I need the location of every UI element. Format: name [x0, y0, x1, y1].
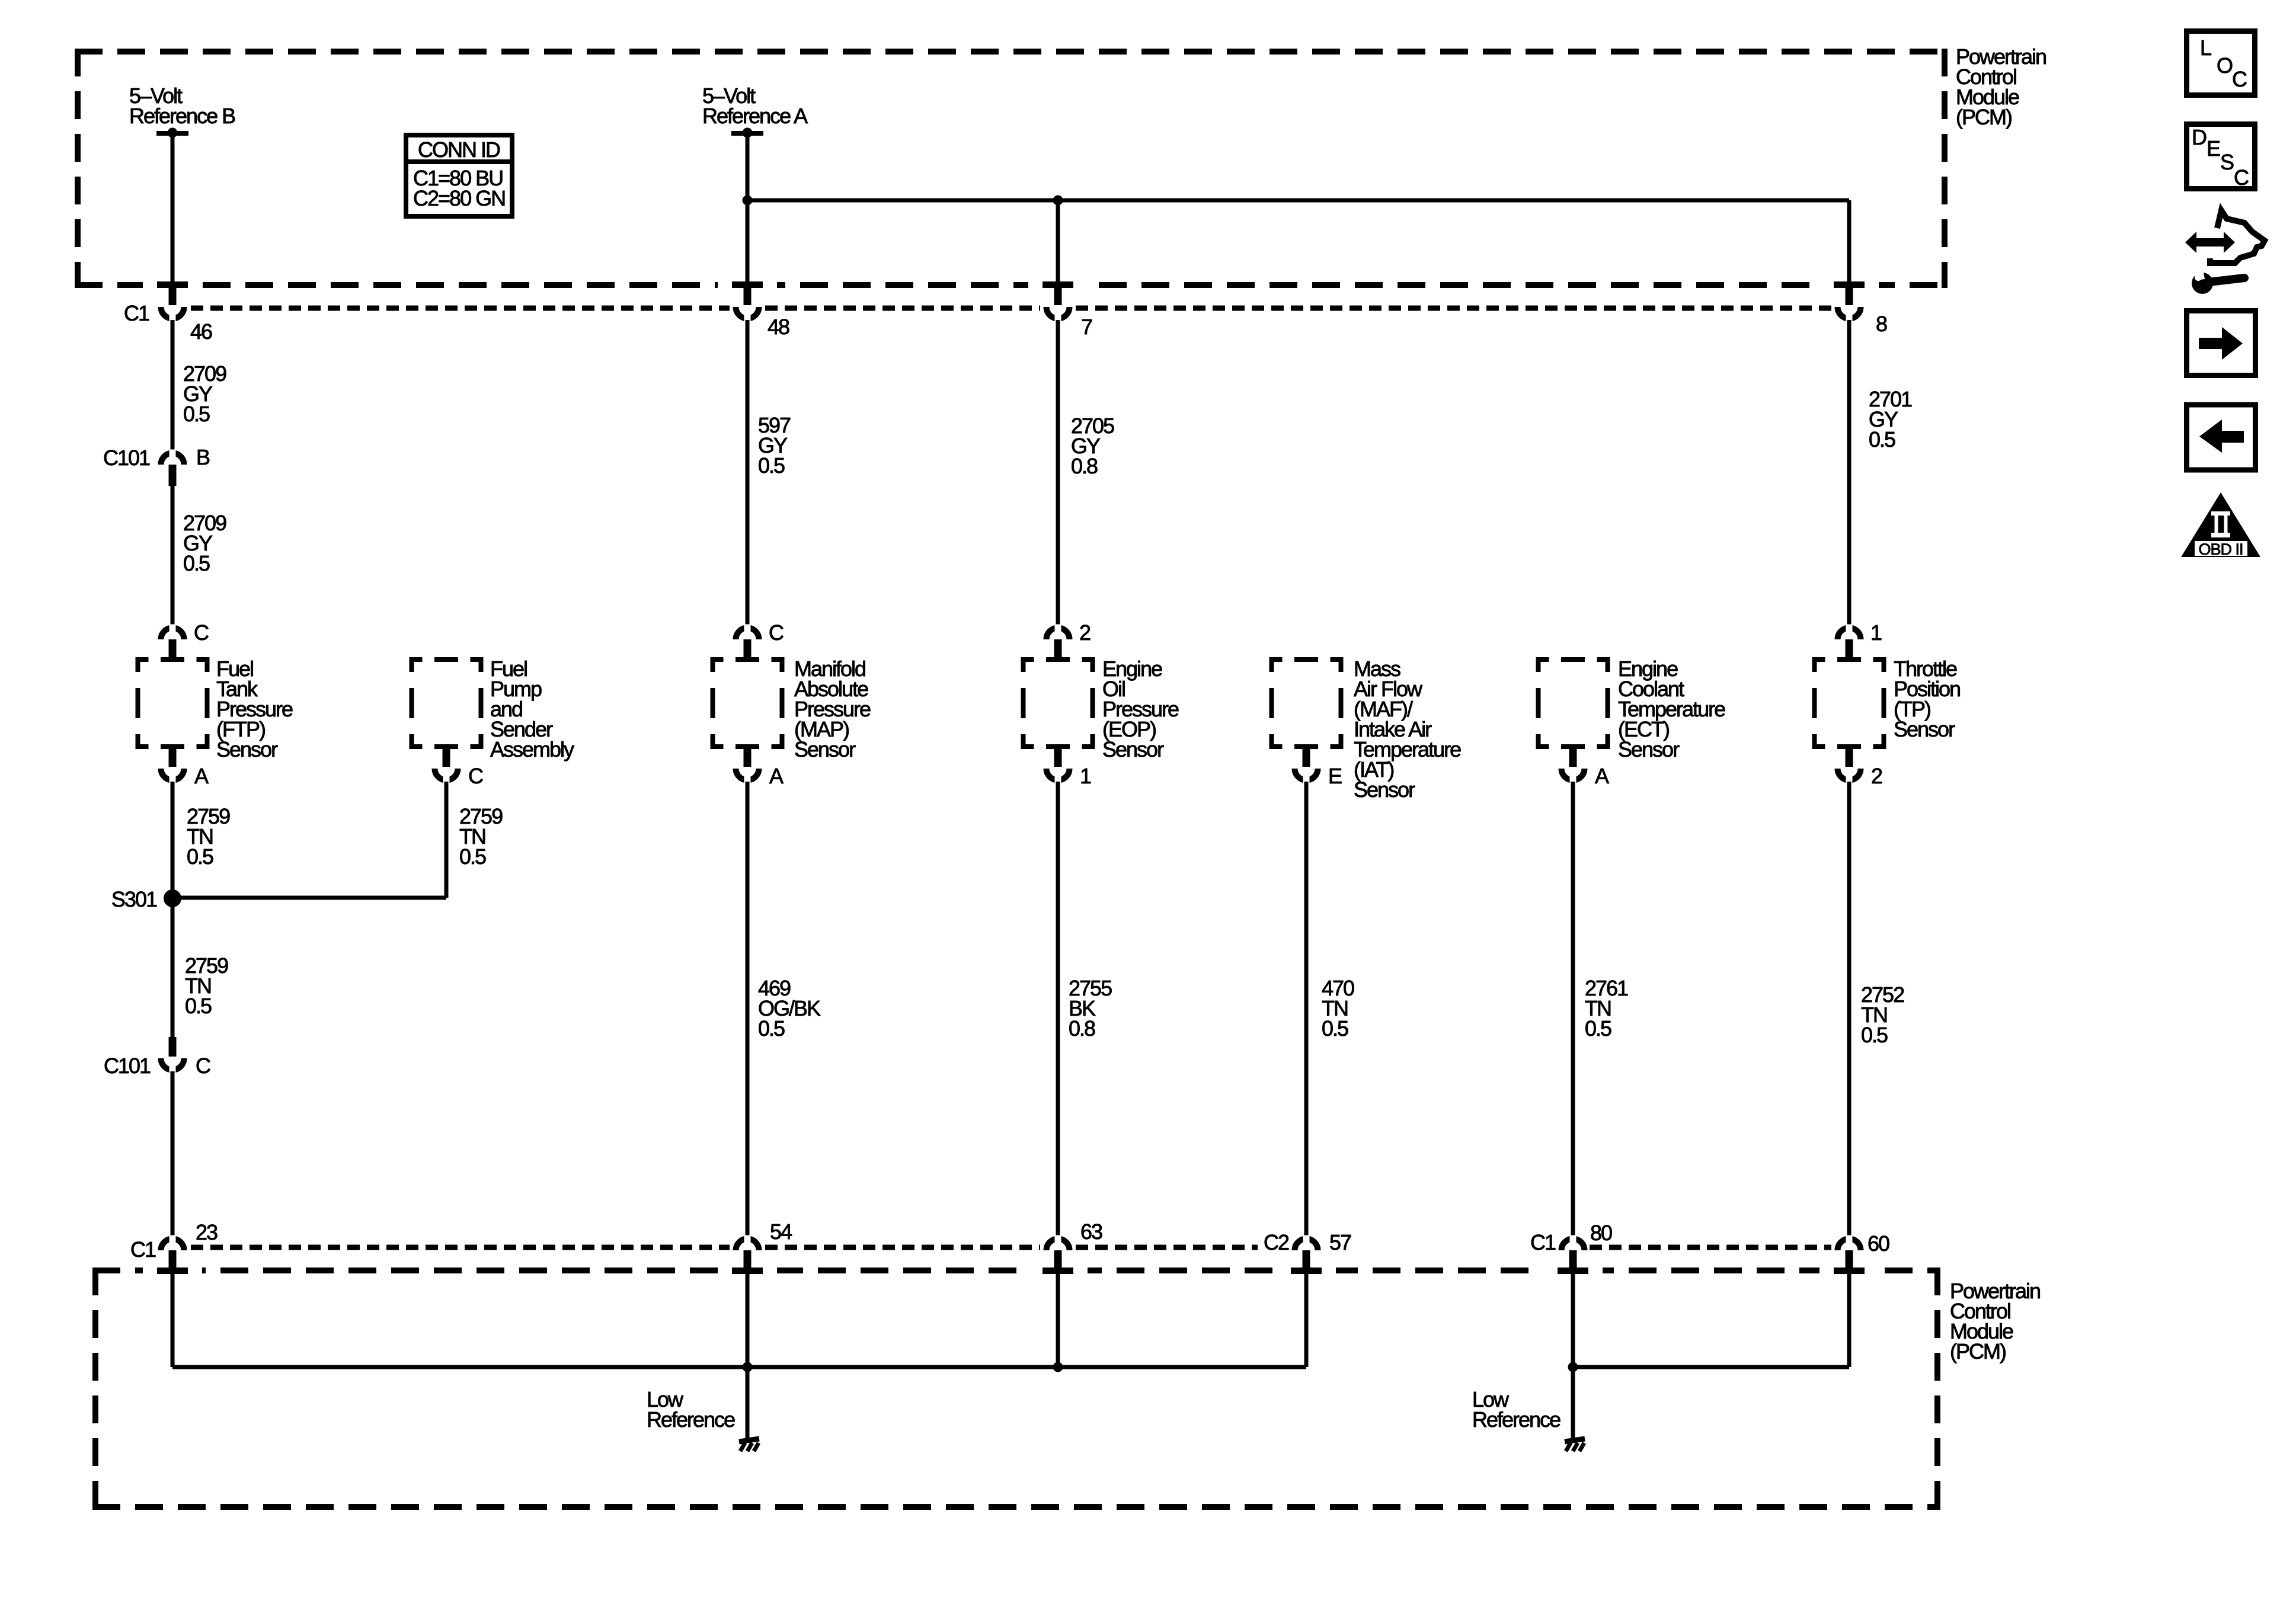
- svg-text:Sensor: Sensor: [1354, 777, 1415, 802]
- svg-text:1: 1: [1080, 764, 1091, 788]
- svg-text:C2=80 GN: C2=80 GN: [413, 186, 505, 210]
- svg-text:C: C: [2232, 67, 2247, 91]
- svg-text:0.5: 0.5: [1869, 427, 1895, 452]
- svg-text:0.5: 0.5: [185, 994, 212, 1018]
- svg-text:OBD II: OBD II: [2198, 540, 2243, 558]
- svg-text:23: 23: [196, 1220, 218, 1244]
- svg-text:(PCM): (PCM): [1950, 1339, 2006, 1363]
- svg-text:57: 57: [1329, 1230, 1351, 1254]
- svg-text:80: 80: [1590, 1221, 1612, 1245]
- svg-text:C: C: [769, 620, 784, 645]
- svg-text:S301: S301: [111, 887, 157, 911]
- svg-text:C101: C101: [103, 446, 150, 470]
- svg-text:C: C: [196, 1054, 210, 1078]
- svg-text:S: S: [2220, 150, 2234, 174]
- svg-text:C: C: [194, 620, 209, 645]
- svg-text:A: A: [194, 764, 209, 788]
- svg-text:Reference A: Reference A: [702, 104, 808, 128]
- svg-text:2: 2: [1871, 764, 1882, 788]
- svg-text:Assembly: Assembly: [490, 737, 574, 761]
- svg-text:8: 8: [1876, 312, 1887, 336]
- svg-text:0.5: 0.5: [459, 844, 486, 869]
- svg-text:L: L: [2200, 36, 2211, 60]
- svg-text:A: A: [769, 764, 784, 788]
- svg-text:0.5: 0.5: [1322, 1016, 1348, 1041]
- svg-text:C: C: [2234, 165, 2249, 190]
- svg-text:CONN ID: CONN ID: [418, 137, 500, 162]
- svg-text:E: E: [2207, 136, 2220, 161]
- svg-text:O: O: [2217, 53, 2233, 78]
- svg-text:0.5: 0.5: [758, 453, 785, 478]
- svg-text:Sensor: Sensor: [1894, 717, 1955, 741]
- svg-text:(PCM): (PCM): [1956, 105, 2012, 129]
- svg-text:0.5: 0.5: [183, 551, 210, 575]
- svg-text:B: B: [196, 445, 210, 469]
- svg-text:0.8: 0.8: [1069, 1016, 1095, 1041]
- svg-text:C101: C101: [104, 1054, 151, 1078]
- svg-text:Sensor: Sensor: [1102, 737, 1164, 761]
- svg-text:Sensor: Sensor: [794, 737, 856, 761]
- svg-text:Sensor: Sensor: [216, 737, 278, 761]
- svg-text:0.5: 0.5: [1861, 1023, 1888, 1047]
- svg-text:48: 48: [768, 315, 789, 339]
- svg-text:2: 2: [1079, 620, 1091, 645]
- svg-text:63: 63: [1080, 1219, 1102, 1244]
- svg-text:Reference: Reference: [1472, 1407, 1560, 1432]
- svg-text:Sensor: Sensor: [1618, 737, 1680, 761]
- svg-text:0.5: 0.5: [758, 1016, 785, 1041]
- svg-text:C1: C1: [124, 301, 149, 325]
- svg-text:A: A: [1595, 764, 1609, 788]
- svg-text:60: 60: [1868, 1231, 1889, 1256]
- svg-text:C1: C1: [1530, 1230, 1556, 1254]
- svg-text:0.8: 0.8: [1071, 454, 1098, 478]
- svg-text:0.5: 0.5: [187, 844, 213, 869]
- svg-text:C: C: [468, 764, 483, 788]
- svg-text:D: D: [2192, 125, 2207, 149]
- svg-text:Reference: Reference: [647, 1407, 735, 1432]
- svg-text:C1: C1: [130, 1237, 156, 1262]
- svg-text:Reference B: Reference B: [129, 104, 235, 128]
- svg-text:7: 7: [1081, 315, 1092, 339]
- svg-text:C2: C2: [1264, 1230, 1289, 1254]
- svg-text:0.5: 0.5: [183, 402, 210, 426]
- svg-text:0.5: 0.5: [1585, 1016, 1611, 1041]
- svg-text:54: 54: [770, 1219, 792, 1244]
- svg-text:E: E: [1328, 764, 1342, 788]
- svg-text:1: 1: [1870, 620, 1882, 645]
- svg-text:46: 46: [190, 319, 212, 344]
